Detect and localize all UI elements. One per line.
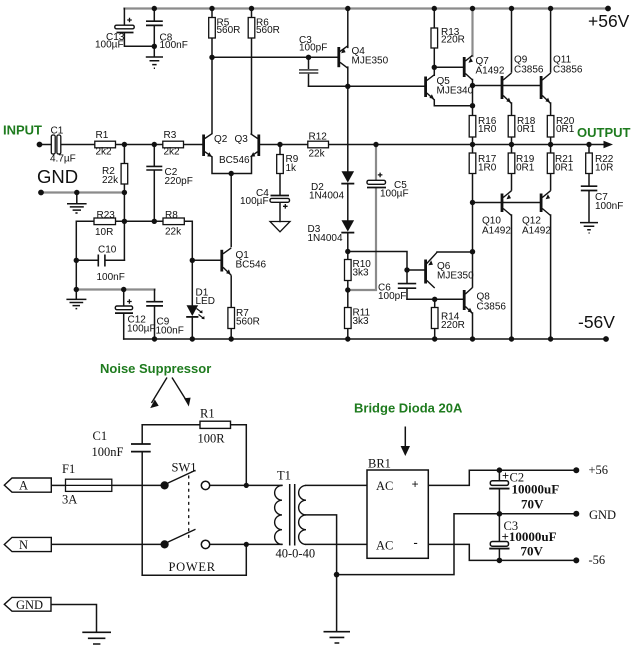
svg-text:40-0-40: 40-0-40	[276, 547, 316, 561]
node C2 R8	[152, 219, 157, 224]
wire Q6 emitter link	[437, 251, 473, 253]
resistor R2	[121, 164, 128, 185]
svg-text:100nF: 100nF	[92, 445, 124, 459]
node R3 C2	[152, 142, 157, 147]
wire Q4 collector to D2 D3 column	[347, 67, 349, 251]
resistor R8	[163, 218, 184, 225]
wire BR1 minus out	[428, 544, 576, 560]
resistor R5	[209, 18, 216, 39]
wire C12 column	[123, 290, 125, 340]
svg-text:R1: R1	[96, 130, 109, 141]
resistor R14	[431, 308, 438, 329]
resistor R17	[469, 153, 476, 174]
wire tail current column	[230, 174, 232, 247]
svg-text:C3856: C3856	[477, 302, 507, 313]
resistor R16	[469, 116, 476, 138]
svg-text:100µF: 100µF	[127, 324, 156, 335]
svg-text:4.7µF: 4.7µF	[50, 154, 76, 165]
wire driver bases row y85	[473, 85, 541, 87]
node Q6 base	[404, 267, 409, 272]
svg-text:C3856: C3856	[514, 65, 544, 76]
wire R14 column	[434, 299, 436, 339]
transistor Q1 BC546	[222, 248, 231, 275]
wire T1 secondary bottom to BR1	[306, 543, 367, 545]
wire Q9 collector to rail	[511, 9, 513, 73]
diode D2 1N4004	[341, 171, 354, 183]
wire Q11 emitter to R20	[550, 103, 552, 116]
wire Q11 collector to rail	[550, 9, 552, 73]
svg-text:220R: 220R	[441, 35, 465, 46]
node center tap junction	[334, 572, 340, 578]
wire Q1 base	[192, 259, 220, 261]
capacitor C6 100pF	[398, 284, 416, 289]
switch SW1 link dashed	[188, 476, 190, 539]
transistor Q8 C3856	[464, 288, 472, 314]
node terminal +56	[573, 467, 579, 473]
wire Q7 node column	[472, 80, 474, 145]
svg-text:10R: 10R	[595, 163, 613, 174]
wire Q3 base to R12	[260, 144, 308, 146]
wire C8 column	[153, 9, 155, 57]
node rail C9	[152, 336, 157, 341]
svg-text:3k3: 3k3	[353, 316, 370, 327]
node Q7 collector	[470, 83, 475, 88]
node rail neg end	[603, 336, 609, 342]
transformer T1 primary	[275, 485, 282, 544]
svg-text:0R1: 0R1	[556, 124, 575, 135]
wire power box bottom	[142, 544, 246, 575]
wire R2 branch vertical	[123, 145, 125, 261]
wire C10 right link	[76, 259, 124, 261]
wire N to SW1 bottom pole	[52, 543, 161, 545]
node out x550	[548, 142, 553, 147]
node rail R13	[432, 6, 437, 11]
svg-text:A1492: A1492	[522, 226, 551, 237]
svg-text:R23: R23	[97, 210, 116, 221]
transistor Q3 BC546	[251, 134, 259, 157]
node Q10 base row	[470, 200, 475, 205]
svg-text:1N4004: 1N4004	[308, 233, 343, 244]
node rail Q11	[548, 6, 553, 11]
node terminal -56	[573, 557, 579, 563]
diode D3 1N4004	[341, 220, 354, 232]
svg-text:100pF: 100pF	[299, 43, 327, 54]
transistor Q5 MJE340	[426, 75, 435, 100]
wire C2 stem	[498, 470, 500, 514]
node terminal GND out	[573, 511, 579, 517]
svg-text:560R: 560R	[217, 25, 241, 36]
wire C3 column	[308, 57, 310, 86]
svg-text:BC546: BC546	[236, 260, 267, 271]
capacitor C7 100nF	[581, 186, 598, 190]
wire R1 to R3	[116, 144, 163, 146]
wire lower bases row y202	[473, 202, 541, 204]
wire C6 to Q8 base	[407, 298, 463, 300]
node rail R14	[432, 336, 437, 341]
transformer T1 secondary	[299, 485, 306, 544]
wire T1 secondary top to BR1	[306, 484, 367, 486]
svg-text:MJE340: MJE340	[437, 86, 474, 97]
wire R13 column	[433, 9, 435, 68]
wire C3 stem	[498, 514, 500, 561]
svg-text:-: -	[414, 536, 418, 550]
svg-text:70V: 70V	[521, 497, 544, 512]
svg-text:10R: 10R	[95, 227, 113, 238]
svg-text:100nF: 100nF	[160, 40, 188, 51]
node input terminal	[37, 142, 43, 148]
switch SW1 top pole	[161, 470, 210, 489]
capacitor C9 100nF	[146, 302, 163, 306]
node rail Q4	[345, 6, 350, 11]
node Q4 collector	[345, 84, 350, 89]
node R13 Q7 base	[432, 65, 437, 70]
resistor R10	[345, 260, 352, 281]
svg-text:+: +	[412, 478, 419, 492]
svg-text:70V: 70V	[521, 543, 544, 558]
node out x511	[509, 142, 514, 147]
svg-text:R12: R12	[309, 132, 328, 143]
wire R1 right down	[231, 425, 247, 486]
node Q1 base	[190, 258, 195, 263]
wire VAS row y57	[212, 56, 338, 58]
svg-text:BR1: BR1	[368, 457, 391, 471]
transistor Q6 MJE350	[426, 252, 437, 288]
wire fuse to SW1 top pole	[112, 484, 161, 486]
node rail end	[605, 6, 611, 12]
svg-text:+56: +56	[589, 463, 609, 477]
capacitor C3 psu 10000uF	[489, 542, 509, 549]
ground below C8	[146, 57, 163, 68]
node R23 R2	[122, 219, 127, 224]
svg-text:GND: GND	[589, 508, 616, 522]
wire A to fuse	[52, 484, 66, 486]
svg-text:3k3: 3k3	[353, 268, 370, 279]
node rail Q10	[509, 336, 514, 341]
svg-text:0R1: 0R1	[516, 163, 535, 174]
svg-text:100µF: 100µF	[95, 40, 124, 51]
svg-text:N: N	[19, 538, 28, 552]
svg-text:OUTPUT: OUTPUT	[577, 125, 631, 140]
svg-text:1k: 1k	[286, 163, 298, 174]
svg-text:AC: AC	[376, 479, 393, 493]
fuse F1	[66, 479, 112, 491]
bridge rectifier BR1 box	[367, 470, 428, 558]
node gnd2 stem	[74, 287, 79, 292]
wire R9 column	[279, 145, 281, 195]
node rail R6	[249, 6, 254, 11]
wire Q10 collector down	[511, 215, 513, 339]
svg-text:2k2: 2k2	[96, 147, 113, 158]
wire GND terminal lead	[51, 605, 97, 632]
wire -56V bottom rail	[124, 338, 606, 340]
resistor R19	[508, 153, 515, 174]
resistor R1 psu	[200, 421, 231, 428]
svg-text:22k: 22k	[309, 149, 326, 160]
node out x472	[470, 142, 475, 147]
wire C5 net gray	[348, 145, 376, 290]
svg-text:1R0: 1R0	[478, 124, 497, 135]
svg-text:R8: R8	[165, 210, 178, 221]
svg-text:100nF: 100nF	[97, 272, 125, 283]
ground open triangle below C4	[270, 222, 290, 232]
node minus junction	[497, 558, 503, 564]
resistor R21	[547, 153, 554, 174]
capacitor C3 100pF	[299, 70, 318, 73]
wire Q4 emitter to rail	[347, 9, 349, 48]
transistor Q7 A1492	[464, 55, 473, 80]
node C3 top	[306, 55, 311, 60]
svg-text:Q2: Q2	[214, 134, 228, 145]
capacitor C2 psu 10000uF	[489, 481, 509, 489]
svg-text:0R1: 0R1	[517, 124, 536, 135]
wire Q12 collector down	[550, 215, 552, 339]
svg-text:560R: 560R	[256, 25, 280, 36]
resistor R12	[308, 141, 329, 148]
resistor R20	[547, 116, 554, 138]
wire center tap ground drop	[336, 575, 338, 631]
ground below C7	[580, 223, 598, 233]
capacitor C13 100uF electrolytic	[115, 18, 134, 33]
terminal N	[4, 537, 51, 551]
node Q8 base R14	[432, 297, 437, 302]
svg-text:Q3: Q3	[235, 134, 249, 145]
transistor Q4 MJE350	[339, 46, 348, 68]
node R1 R2	[122, 142, 127, 147]
wire C9 column	[154, 290, 156, 340]
wire Q5 emitter link	[434, 100, 472, 106]
node rail Q9	[509, 6, 514, 11]
svg-text:GND: GND	[37, 166, 78, 187]
wire R8 to LED column	[184, 221, 192, 339]
capacitor C12 100uF electrolytic	[115, 299, 133, 313]
ground below T1 center tap	[324, 632, 351, 643]
node rail Q8	[470, 336, 475, 341]
resistor R1	[95, 141, 116, 148]
wire lower driver column x472	[472, 145, 474, 340]
svg-text:220R: 220R	[441, 320, 465, 331]
svg-text:C10: C10	[98, 245, 117, 256]
wire BR1 plus out	[428, 470, 576, 485]
node gnd stem	[74, 190, 79, 195]
wire Q2 Q3 emitter junction	[212, 157, 252, 174]
ground below input gnd bus	[67, 193, 87, 214]
node gnd mid junction	[497, 511, 503, 517]
svg-text:BC546: BC546	[219, 155, 250, 166]
svg-text:+56V: +56V	[588, 11, 630, 31]
wire Q1 emitter to R7	[230, 276, 232, 339]
node rail R11	[345, 336, 350, 341]
capacitor C5 100uF electrolytic	[367, 173, 386, 188]
wire C12 C9 feed gray	[77, 288, 155, 290]
node Q6 emitter row	[470, 249, 475, 254]
svg-text:T1: T1	[277, 468, 291, 482]
svg-text:100R: 100R	[198, 432, 226, 446]
terminal GND	[4, 597, 51, 612]
node rail Q12	[548, 336, 553, 341]
node C10 left	[74, 258, 79, 263]
wire R18 to rail	[511, 137, 513, 145]
svg-text:+10000uF: +10000uF	[502, 529, 557, 544]
svg-text:A1492: A1492	[482, 226, 511, 237]
node R5 VAS	[209, 55, 214, 60]
svg-text:1N4004: 1N4004	[309, 191, 344, 202]
ground below GND terminal	[82, 632, 111, 644]
svg-text:GND: GND	[16, 598, 43, 612]
transistor Q11 C3856	[541, 73, 551, 104]
wire ground bus (input gnd)	[41, 191, 124, 193]
resistor R18	[508, 116, 515, 138]
ground below C10 node	[66, 290, 86, 309]
svg-text:Bridge Dioda 20A: Bridge Dioda 20A	[354, 401, 463, 416]
node gnd terminal	[38, 190, 44, 196]
resistor R6	[248, 18, 255, 39]
wire bias row y251 to C6	[348, 252, 407, 271]
node C13 C8 bottom	[152, 44, 157, 49]
svg-text:SW1: SW1	[172, 461, 197, 475]
node rail LED	[190, 336, 195, 341]
svg-text:Noise Suppressor: Noise Suppressor	[100, 361, 211, 376]
capacitor C1 input	[51, 135, 61, 154]
wire gnd bus to caps	[337, 514, 577, 575]
output arrow	[604, 141, 614, 148]
resistor R23	[94, 218, 116, 225]
wire R6 column	[251, 9, 253, 134]
node out R22	[586, 142, 591, 147]
svg-text:560R: 560R	[236, 317, 260, 328]
wire C2 branch vertical	[153, 145, 155, 222]
wire SW1 bottom out to T1	[210, 543, 282, 545]
node rail C8	[152, 6, 157, 11]
wire Q5 base row y86	[309, 85, 425, 87]
resistor R3	[163, 141, 184, 148]
wire +56V top rail	[124, 7, 608, 9]
svg-text:MJE350: MJE350	[437, 271, 474, 282]
svg-text:1R0: 1R0	[478, 163, 497, 174]
node BR1 plus junction	[497, 467, 503, 473]
capacitor C4 100uF electrolytic	[270, 196, 290, 209]
switch SW1 bottom pole	[161, 529, 210, 548]
node R9 Q3 base	[277, 142, 282, 147]
svg-text:A: A	[19, 478, 28, 492]
wire C4 stem	[279, 203, 281, 222]
transformer T1 core	[290, 484, 295, 546]
svg-text:100pF: 100pF	[378, 291, 406, 302]
svg-text:100nF: 100nF	[595, 201, 623, 212]
wire input line to R1	[40, 144, 95, 146]
svg-text:C1: C1	[51, 126, 64, 137]
node R10 R11	[345, 287, 350, 292]
wire R10 R11 column	[347, 252, 349, 340]
arrow noise right	[172, 378, 191, 407]
wire R5 column	[211, 9, 213, 134]
svg-text:100nF: 100nF	[156, 326, 184, 337]
node C5 top	[373, 142, 378, 147]
wire snubber left C1 branch	[141, 425, 143, 576]
node rail R7	[229, 336, 234, 341]
transistor Q2 BC546	[204, 134, 212, 157]
svg-text:R1: R1	[200, 407, 215, 421]
svg-text:-56V: -56V	[578, 312, 615, 332]
wire +rail drop to Q7 emitter	[471, 9, 473, 57]
wire T1 center tap	[306, 515, 337, 575]
resistor R11	[345, 308, 352, 329]
capacitor C1 psu 100nF	[131, 444, 151, 452]
terminal A	[4, 478, 51, 492]
svg-text:LED: LED	[196, 296, 215, 307]
capacitor C10	[98, 255, 105, 267]
wire Q9 emitter to R18	[511, 103, 513, 116]
svg-text:100µF: 100µF	[380, 189, 409, 200]
svg-text:AC: AC	[376, 538, 393, 552]
capacitor C8 100nF	[146, 21, 163, 25]
arrow noise left	[150, 378, 167, 409]
resistor R7	[228, 308, 235, 329]
svg-text:2k2: 2k2	[164, 147, 181, 158]
transistor Q10 A1492	[502, 191, 512, 216]
wire C13 loop	[124, 9, 154, 47]
svg-text:22k: 22k	[102, 175, 119, 186]
wire R23 row	[76, 221, 163, 289]
svg-text:100µF: 100µF	[240, 196, 269, 207]
resistor R13	[431, 28, 438, 48]
node C12 top	[121, 287, 126, 292]
wire Q7 base	[434, 67, 463, 75]
wire R21 column	[550, 145, 552, 191]
svg-text:INPUT: INPUT	[3, 123, 42, 138]
wire Q6 base	[407, 269, 425, 271]
wire R12 to output arrow	[329, 144, 605, 146]
svg-text:22k: 22k	[165, 227, 182, 238]
svg-text:220pF: 220pF	[165, 176, 193, 187]
wire R3 to Q2 base	[184, 144, 203, 146]
node Q5 emitter	[470, 103, 475, 108]
svg-text:A1492: A1492	[476, 66, 505, 77]
wire snubber top to R1	[142, 424, 200, 426]
svg-text:+: +	[502, 469, 509, 483]
node R2 gnd	[122, 190, 127, 195]
resistor R22	[586, 153, 593, 174]
svg-text:F1: F1	[62, 462, 75, 476]
node tail junction	[229, 171, 234, 176]
svg-text:C1: C1	[93, 429, 108, 443]
svg-text:3A: 3A	[62, 493, 77, 507]
node D3 R10	[345, 249, 350, 254]
wire C6 column	[406, 270, 408, 299]
wire SW1 top out to T1	[210, 484, 282, 486]
svg-text:MJE350: MJE350	[352, 56, 389, 67]
svg-text:0R1: 0R1	[555, 163, 574, 174]
svg-text:POWER: POWER	[169, 560, 216, 574]
svg-text:C3856: C3856	[553, 65, 583, 76]
node rail R5	[209, 6, 214, 11]
diode D1 LED	[186, 305, 204, 319]
transistor Q9 C3856	[502, 73, 512, 104]
svg-text:10000uF: 10000uF	[512, 482, 560, 497]
wire R19 column	[511, 145, 513, 191]
wire R20 to rail	[550, 137, 552, 145]
capacitor C2 220pF	[146, 166, 162, 170]
wire R22 C7 column	[588, 145, 590, 223]
resistor R9	[277, 155, 284, 174]
node rail Q7	[470, 6, 475, 11]
arrow bridge	[401, 427, 410, 457]
transistor Q12 A1492	[541, 191, 551, 216]
node R1 to switch junction	[244, 483, 249, 488]
svg-text:R3: R3	[164, 130, 177, 141]
node box to N out junction	[244, 542, 249, 547]
svg-text:-56: -56	[589, 553, 606, 567]
